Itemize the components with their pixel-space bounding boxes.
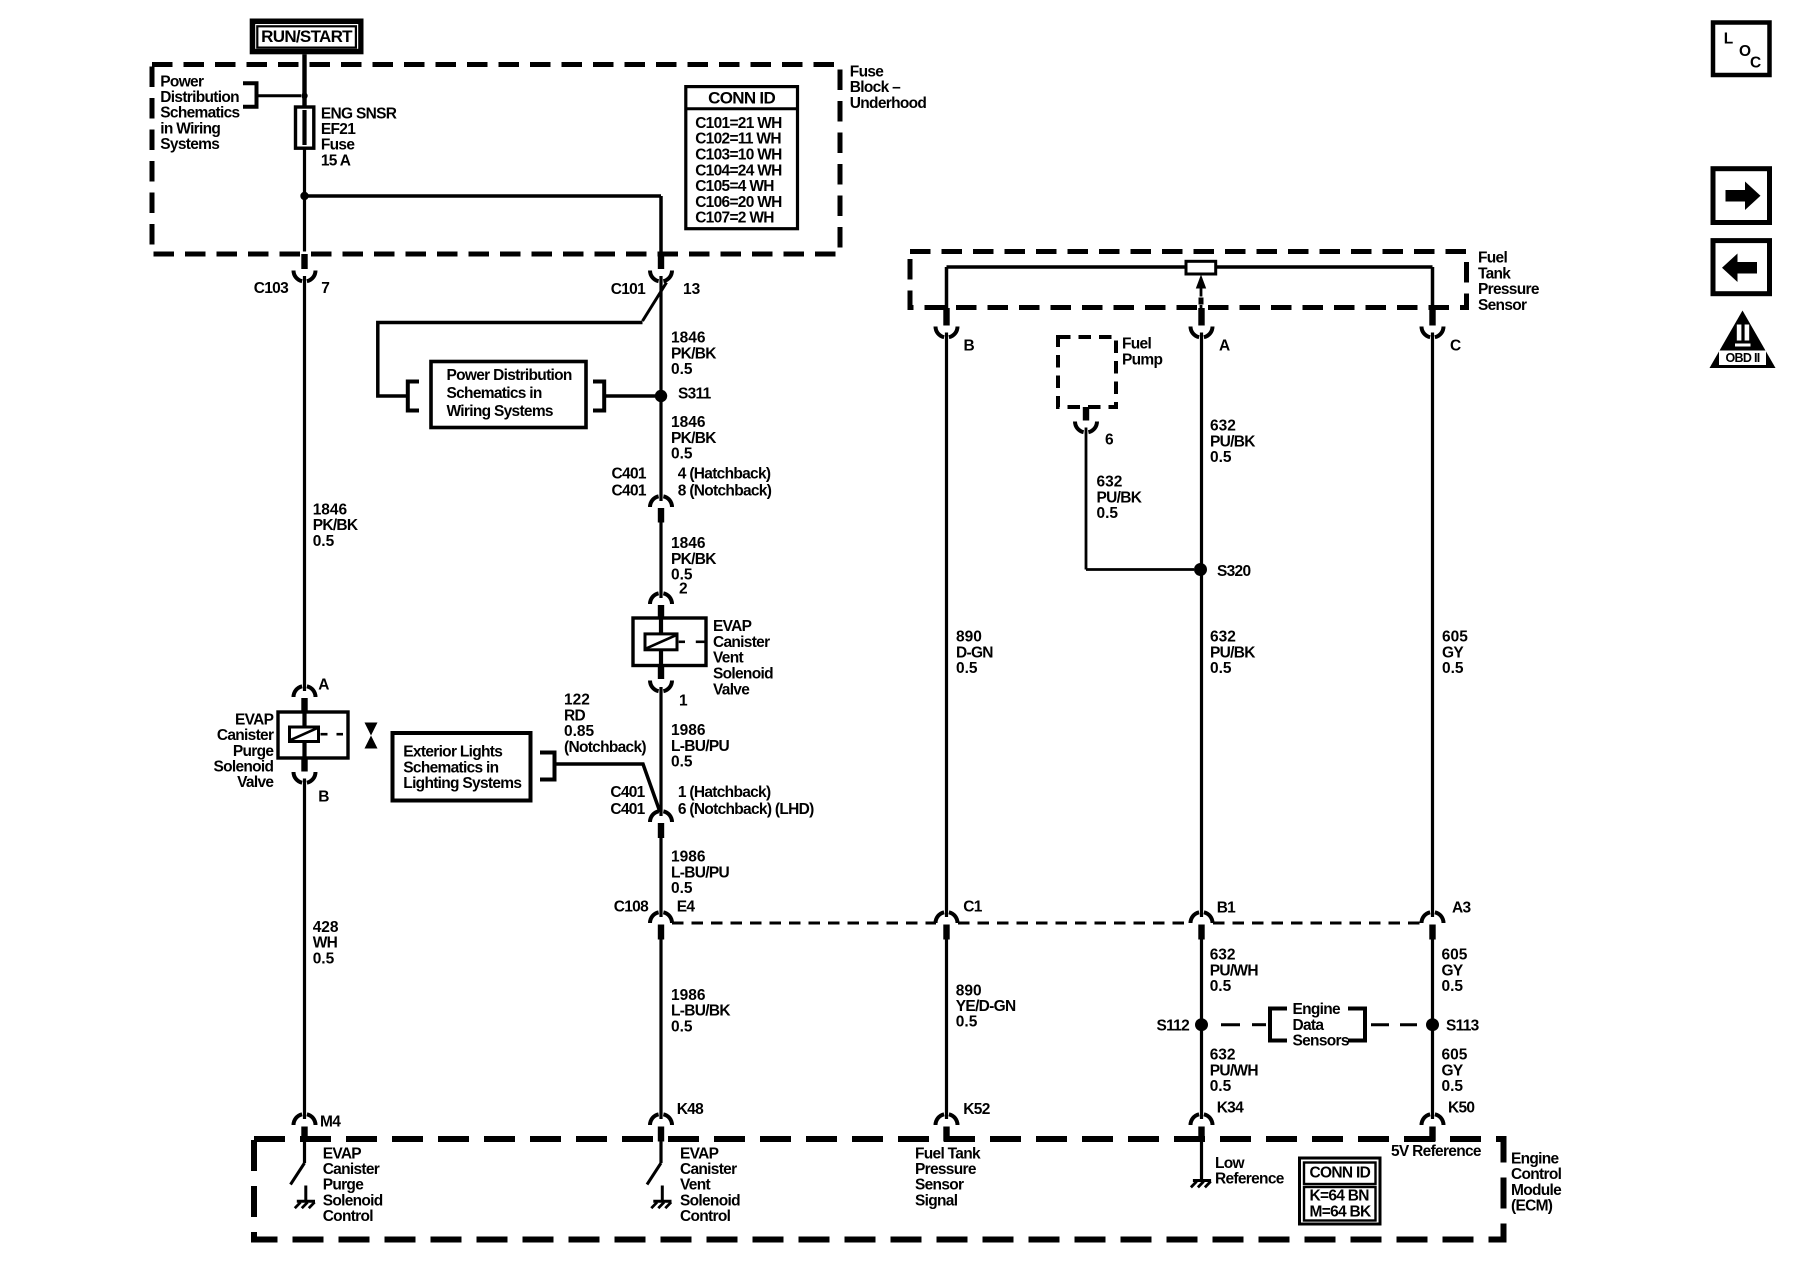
svg-text:C107=2 WH: C107=2 WH	[695, 210, 774, 227]
svg-text:Solenoid: Solenoid	[323, 1192, 383, 1209]
svg-text:Vent: Vent	[680, 1177, 710, 1194]
svg-text:0.5: 0.5	[1442, 660, 1464, 677]
svg-text:0.5: 0.5	[1210, 978, 1232, 995]
svg-text:C103: C103	[254, 280, 289, 297]
svg-text:890: 890	[956, 629, 982, 646]
svg-text:S320: S320	[1217, 563, 1250, 580]
svg-text:WH: WH	[313, 935, 338, 952]
svg-text:1 (Hatchback): 1 (Hatchback)	[678, 784, 771, 801]
svg-text:S311: S311	[678, 386, 712, 403]
svg-text:C105=4 WH: C105=4 WH	[695, 178, 774, 195]
svg-text:C: C	[1750, 54, 1761, 71]
svg-text:EVAP: EVAP	[235, 711, 274, 728]
svg-text:2: 2	[679, 581, 688, 598]
svg-text:1846: 1846	[313, 501, 348, 518]
svg-text:Lighting Systems: Lighting Systems	[403, 775, 521, 792]
svg-text:A3: A3	[1452, 900, 1471, 917]
svg-text:0.5: 0.5	[313, 950, 335, 967]
svg-text:C104=24 WH: C104=24 WH	[695, 162, 782, 179]
svg-text:Pressure: Pressure	[915, 1161, 977, 1178]
svg-text:PU/WH: PU/WH	[1210, 1062, 1259, 1079]
svg-text:Exterior Lights: Exterior Lights	[403, 744, 502, 761]
svg-text:1846: 1846	[671, 414, 706, 431]
svg-text:Canister: Canister	[217, 727, 274, 744]
svg-text:Systems: Systems	[160, 136, 219, 153]
svg-text:Canister: Canister	[713, 634, 770, 651]
svg-text:605: 605	[1442, 629, 1468, 646]
svg-text:EF21: EF21	[321, 121, 356, 138]
svg-text:EVAP: EVAP	[680, 1145, 719, 1162]
svg-text:A: A	[1219, 337, 1230, 354]
svg-text:632: 632	[1210, 418, 1236, 435]
svg-text:8 (Notchback): 8 (Notchback)	[678, 482, 772, 499]
svg-text:Control: Control	[1511, 1166, 1562, 1183]
svg-text:Solenoid: Solenoid	[713, 666, 773, 683]
svg-text:PK/BK: PK/BK	[313, 517, 359, 534]
svg-text:0.5: 0.5	[1442, 978, 1464, 995]
svg-text:C101=21 WH: C101=21 WH	[695, 115, 782, 132]
svg-text:Engine: Engine	[1293, 1001, 1342, 1018]
svg-text:B: B	[964, 337, 975, 354]
svg-text:Module: Module	[1511, 1182, 1562, 1199]
svg-text:1986: 1986	[671, 722, 706, 739]
svg-text:Sensor: Sensor	[1478, 297, 1527, 314]
svg-text:PU/BK: PU/BK	[1210, 433, 1256, 450]
svg-text:0.5: 0.5	[1210, 449, 1232, 466]
svg-text:PK/BK: PK/BK	[671, 430, 717, 447]
svg-text:Pump: Pump	[1122, 351, 1162, 368]
svg-text:C401: C401	[612, 466, 647, 483]
svg-text:1986: 1986	[671, 849, 706, 866]
svg-text:5V Reference: 5V Reference	[1391, 1143, 1482, 1160]
svg-text:1: 1	[679, 693, 688, 710]
svg-text:GY: GY	[1442, 644, 1464, 661]
svg-text:Data: Data	[1293, 1017, 1325, 1034]
svg-text:GY: GY	[1442, 1062, 1464, 1079]
svg-text:L-BU/BK: L-BU/BK	[671, 1003, 731, 1020]
svg-text:E4: E4	[677, 899, 696, 916]
svg-text:Solenoid: Solenoid	[680, 1192, 740, 1209]
svg-text:(Notchback): (Notchback)	[564, 739, 646, 756]
svg-text:PK/BK: PK/BK	[671, 345, 717, 362]
svg-text:Pressure: Pressure	[1478, 281, 1540, 298]
svg-text:122: 122	[564, 692, 590, 709]
svg-text:PK/BK: PK/BK	[671, 551, 717, 568]
svg-text:0.5: 0.5	[671, 754, 693, 771]
svg-text:Control: Control	[323, 1208, 374, 1225]
svg-text:4 (Hatchback): 4 (Hatchback)	[678, 466, 771, 483]
svg-text:13: 13	[683, 281, 701, 298]
svg-text:632: 632	[1097, 474, 1123, 491]
svg-text:0.5: 0.5	[956, 1014, 978, 1031]
svg-text:C: C	[1450, 337, 1461, 354]
svg-text:CONN ID: CONN ID	[708, 89, 775, 108]
svg-text:Fuse: Fuse	[321, 137, 355, 154]
svg-text:EVAP: EVAP	[323, 1145, 362, 1162]
svg-text:Valve: Valve	[237, 774, 274, 791]
svg-text:(ECM): (ECM)	[1511, 1198, 1553, 1215]
svg-text:0.5: 0.5	[956, 660, 978, 677]
svg-text:RD: RD	[564, 707, 585, 724]
svg-text:RUN/START: RUN/START	[261, 27, 353, 46]
svg-text:Solenoid: Solenoid	[213, 759, 273, 776]
svg-text:0.5: 0.5	[1442, 1078, 1464, 1095]
svg-text:0.5: 0.5	[671, 880, 693, 897]
svg-text:Low: Low	[1215, 1155, 1246, 1172]
svg-text:Sensors: Sensors	[1293, 1033, 1349, 1050]
svg-text:0.5: 0.5	[671, 361, 693, 378]
svg-text:Underhood: Underhood	[850, 95, 927, 112]
svg-text:632: 632	[1210, 1047, 1236, 1064]
svg-text:605: 605	[1442, 947, 1468, 964]
svg-text:ENG SNSR: ENG SNSR	[321, 105, 397, 122]
svg-text:K34: K34	[1217, 1100, 1244, 1117]
svg-text:PU/BK: PU/BK	[1210, 644, 1256, 661]
svg-text:C102=11 WH: C102=11 WH	[695, 131, 781, 148]
svg-text:0.5: 0.5	[313, 533, 335, 550]
svg-text:Sensor: Sensor	[915, 1177, 964, 1194]
svg-text:C101: C101	[611, 281, 646, 298]
svg-text:PU/BK: PU/BK	[1097, 489, 1143, 506]
svg-text:C106=20 WH: C106=20 WH	[695, 194, 782, 211]
svg-text:PU/WH: PU/WH	[1210, 962, 1259, 979]
svg-text:L-BU/PU: L-BU/PU	[671, 864, 729, 881]
svg-text:Tank: Tank	[1478, 265, 1511, 282]
svg-text:0.5: 0.5	[1097, 505, 1119, 522]
svg-text:Signal: Signal	[915, 1192, 958, 1209]
svg-text:0.5: 0.5	[671, 1018, 693, 1035]
svg-text:Schematics in: Schematics in	[403, 759, 498, 776]
svg-text:Purge: Purge	[233, 743, 275, 760]
svg-text:K48: K48	[677, 1101, 704, 1118]
svg-text:CONN ID: CONN ID	[1310, 1165, 1371, 1182]
svg-text:Fuel Tank: Fuel Tank	[915, 1145, 981, 1162]
svg-text:EVAP: EVAP	[713, 618, 752, 635]
svg-text:632: 632	[1210, 629, 1236, 646]
svg-text:C1: C1	[963, 899, 982, 916]
svg-text:890: 890	[956, 982, 982, 999]
svg-text:C103=10 WH: C103=10 WH	[695, 147, 782, 164]
svg-text:L-BU/PU: L-BU/PU	[671, 738, 729, 755]
svg-text:C108: C108	[614, 899, 649, 916]
svg-text:M=64 BK: M=64 BK	[1310, 1204, 1373, 1221]
svg-text:Vent: Vent	[713, 650, 743, 667]
svg-text:Fuse: Fuse	[850, 63, 884, 80]
svg-text:Wiring Systems: Wiring Systems	[447, 403, 553, 420]
svg-text:0.5: 0.5	[671, 446, 693, 463]
svg-text:Canister: Canister	[680, 1161, 737, 1178]
svg-text:Fuel: Fuel	[1478, 250, 1507, 267]
svg-text:Fuel: Fuel	[1122, 336, 1151, 353]
svg-text:605: 605	[1442, 1047, 1468, 1064]
svg-text:428: 428	[313, 919, 339, 936]
svg-text:1846: 1846	[671, 330, 706, 347]
svg-text:C401: C401	[610, 784, 645, 801]
svg-text:Canister: Canister	[323, 1161, 380, 1178]
svg-text:Power: Power	[160, 73, 204, 90]
svg-text:K50: K50	[1448, 1100, 1474, 1117]
svg-text:K52: K52	[963, 1101, 989, 1118]
svg-text:1986: 1986	[671, 987, 706, 1004]
svg-text:A: A	[318, 677, 329, 694]
svg-text:B: B	[318, 789, 329, 806]
svg-text:YE/D-GN: YE/D-GN	[956, 998, 1016, 1015]
svg-text:C401: C401	[612, 482, 647, 499]
svg-text:15 A: 15 A	[321, 152, 351, 169]
svg-text:OBD II: OBD II	[1726, 351, 1760, 365]
svg-text:GY: GY	[1442, 962, 1464, 979]
svg-text:B1: B1	[1217, 900, 1236, 917]
svg-text:Block –: Block –	[850, 79, 901, 96]
svg-text:Engine: Engine	[1511, 1151, 1560, 1168]
svg-text:0.85: 0.85	[564, 723, 595, 740]
svg-text:M4: M4	[320, 1114, 341, 1131]
svg-text:C401: C401	[610, 801, 645, 818]
svg-text:0.5: 0.5	[1210, 1078, 1232, 1095]
svg-text:7: 7	[321, 280, 330, 297]
svg-text:Power Distribution: Power Distribution	[447, 367, 572, 384]
svg-text:S113: S113	[1446, 1018, 1480, 1035]
svg-text:Valve: Valve	[713, 681, 750, 698]
svg-text:0.5: 0.5	[1210, 660, 1232, 677]
svg-text:Reference: Reference	[1215, 1171, 1285, 1188]
svg-text:Schematics in: Schematics in	[447, 385, 542, 402]
svg-text:S112: S112	[1156, 1018, 1189, 1035]
svg-text:Control: Control	[680, 1208, 731, 1225]
svg-text:Distribution: Distribution	[160, 89, 239, 106]
svg-text:in Wiring: in Wiring	[160, 120, 220, 137]
svg-text:Purge: Purge	[323, 1177, 365, 1194]
svg-text:632: 632	[1210, 947, 1236, 964]
svg-text:Schematics: Schematics	[160, 105, 239, 122]
svg-text:L: L	[1724, 31, 1733, 48]
svg-text:6 (Notchback) (LHD): 6 (Notchback) (LHD)	[678, 801, 814, 818]
svg-text:6: 6	[1105, 432, 1114, 449]
svg-text:D-GN: D-GN	[956, 644, 993, 661]
svg-text:1846: 1846	[671, 535, 706, 552]
svg-text:K=64 BN: K=64 BN	[1310, 1188, 1370, 1205]
